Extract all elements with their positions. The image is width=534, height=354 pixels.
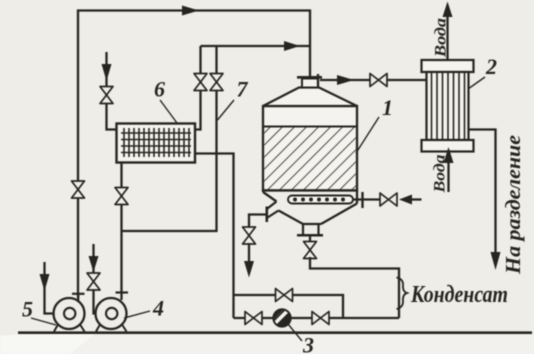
leader 2 [468, 77, 485, 89]
vessel bottom cone [263, 192, 357, 225]
left drain spout [267, 202, 279, 219]
svg-text:1: 1 [382, 95, 393, 120]
valve right of pump 3 [312, 312, 329, 325]
separation arrow down [491, 252, 501, 270]
water out arrow up [443, 2, 453, 18]
flow arrow on top header [182, 6, 199, 16]
condensate brace [397, 278, 408, 310]
wire: top recycle header from pump 5 riser to vessel [78, 11, 310, 299]
wire: condensed product to separation [469, 130, 496, 253]
valve on pump 4 suction [87, 273, 100, 290]
valve under exchanger 6 [115, 188, 128, 205]
steam inlet arrow pointing left [399, 195, 412, 205]
bottom outlet flange [297, 234, 323, 237]
svg-text:Вода: Вода [432, 155, 449, 194]
valve on drain [243, 227, 256, 244]
flange tick on sparger line [361, 192, 363, 208]
cone bottom line [303, 223, 321, 225]
svg-text:3: 3 [302, 333, 314, 354]
valve on vapor line [370, 74, 387, 87]
heat exchanger 6 tube grid horizontals [121, 133, 191, 153]
sparger tube [288, 196, 353, 204]
wire: riser A from exchanger 6 top-right [195, 46, 201, 130]
valve left of pump 3 [245, 312, 262, 325]
pump 5 suction arrow [40, 274, 50, 291]
wire: cooling water out [446, 5, 448, 60]
wire: condensate bottom pipe [234, 317, 400, 319]
svg-text:2: 2 [485, 54, 497, 79]
wire: bottoms line elbow to right drop [310, 257, 399, 318]
vapor flow arrow [337, 75, 354, 85]
vapor line from vessel top to exchanger 2 [320, 79, 426, 81]
heat exchanger 2 top cap [422, 60, 474, 72]
ground line [18, 331, 532, 334]
svg-text:7: 7 [237, 77, 249, 102]
sparger bubbles [293, 198, 345, 202]
wire: pump 4 discharge to circle [120, 292, 122, 300]
heat exchanger 6 tube grid verticals [124, 128, 189, 157]
flange tick pump 5 discharge [72, 293, 85, 295]
wire: pump 5 suction feed [45, 262, 54, 314]
vessel packing bottom line [263, 189, 357, 191]
heat exchanger 2 bottom cap [422, 140, 474, 152]
valve on line 7 [210, 74, 223, 91]
flow arrow on second header [284, 41, 300, 51]
leader 7 [218, 100, 235, 120]
water in arrow up [444, 147, 454, 163]
heat exchanger 2 tubes [432, 72, 465, 140]
bottom outlet box [303, 224, 319, 235]
wire: middle recirculation pipe [234, 295, 344, 318]
wire: exchanger 6 right outlet down to condensate line [195, 154, 234, 319]
valve on middle pipe [276, 289, 293, 302]
paper lighter strip below ground [0, 335, 534, 354]
vessel hatched packing [264, 127, 356, 190]
flange tick on vapor line [317, 74, 319, 86]
wire: steam line into sparger [353, 198, 381, 200]
heat exchanger 2 body [427, 72, 469, 140]
svg-text:Вода: Вода [433, 18, 450, 58]
wire: cooling water in [447, 150, 449, 192]
wire: exchanger 6 bottom-left line to pump 4 [120, 163, 122, 293]
inlet arrow down [102, 64, 112, 81]
svg-text:6: 6 [154, 77, 165, 102]
heat exchanger 6 shell [117, 124, 196, 163]
wire: bottoms outlet with valve down to condensate run [309, 235, 311, 243]
svg-text:4: 4 [152, 296, 164, 321]
paper white corner bottom-left [0, 334, 95, 354]
leader 5 [31, 318, 56, 325]
leader 6 [160, 100, 177, 123]
vessel lower shell walls [263, 190, 357, 203]
wire: line 7 riser B [122, 46, 217, 231]
valve on sparger line [380, 193, 397, 206]
pump 5 [54, 294, 85, 332]
vessel 1 body [263, 77, 357, 190]
leader 4 [124, 311, 150, 318]
leader 3 [288, 324, 302, 341]
valve on riser A [194, 74, 207, 91]
pump 4 [96, 298, 127, 332]
drain arrow down [244, 261, 254, 278]
vessel packing top line [263, 126, 357, 128]
valve on exchanger 6 inlet [100, 87, 113, 104]
spout flange bar [265, 207, 268, 223]
wire: drain shaft [248, 243, 250, 264]
svg-text:Конденсат: Конденсат [410, 282, 508, 308]
pump 3 [270, 306, 291, 327]
wire: drain pipe left [249, 215, 267, 229]
valve on bottoms outlet [304, 242, 317, 259]
wire: feed inlet to exchanger 6 [107, 52, 117, 130]
valve on pump 5 riser [72, 181, 85, 198]
leader 1 [356, 117, 379, 153]
flange tick pump 4 discharge [116, 291, 129, 293]
wire: pump 4 suction feed [94, 244, 97, 314]
svg-text:На разделение: На разделение [501, 135, 525, 275]
wire: second header y=46 [201, 45, 311, 47]
pump 4 suction arrow [89, 256, 99, 272]
